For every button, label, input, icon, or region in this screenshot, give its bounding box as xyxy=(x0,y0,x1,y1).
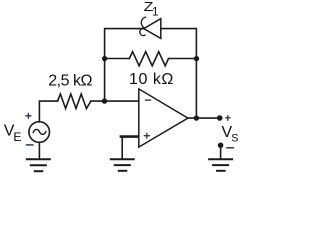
node A xyxy=(102,98,107,103)
plus sign op-amp non-inverting input xyxy=(144,133,150,139)
minus sign op-amp inverting input xyxy=(145,99,151,101)
svg-text:S: S xyxy=(231,133,238,145)
wire source to ground G1 xyxy=(38,142,40,158)
wire Vs minus terminal to ground G3 xyxy=(220,145,222,158)
ground G1 xyxy=(27,159,50,171)
resistor R2 10k left lead xyxy=(105,58,130,60)
node output xyxy=(194,115,199,120)
wire plus input down to ground G2 xyxy=(121,137,123,159)
minus sign at source xyxy=(26,144,34,146)
node right 10k xyxy=(194,56,199,61)
sine wave inside source xyxy=(33,129,46,134)
plus sign at source xyxy=(25,113,31,119)
terminal dot Vs plus xyxy=(217,115,223,121)
terminal dot Vs minus xyxy=(218,143,224,149)
svg-text:E: E xyxy=(13,130,21,144)
wire node A up and across to zener xyxy=(105,29,144,102)
plus sign at Vs xyxy=(225,115,230,121)
resistor R1 2.5k zigzag xyxy=(58,94,91,109)
svg-text:2,5 kΩ: 2,5 kΩ xyxy=(48,72,92,89)
ground G3 xyxy=(209,159,232,171)
ground G2 xyxy=(111,159,134,171)
wire zener to right vertical, down to output xyxy=(161,29,197,119)
wire op-amp output to Vs plus terminal xyxy=(188,117,220,119)
minus sign at Vs xyxy=(226,147,234,149)
resistor R2 10k zigzag xyxy=(129,52,168,66)
wire source corner to resistor R1 xyxy=(39,101,57,122)
op-amp plus input stub xyxy=(120,135,139,138)
zener diode Z1 xyxy=(140,17,161,38)
svg-text:1: 1 xyxy=(152,5,159,18)
source VE circle xyxy=(29,122,50,143)
resistor R2 10k right lead xyxy=(169,58,197,60)
wire R1 to op-amp minus input xyxy=(91,100,139,102)
svg-text:10 kΩ: 10 kΩ xyxy=(129,71,173,88)
node left 10k xyxy=(102,56,107,61)
op-amp U1 triangle xyxy=(139,89,188,147)
